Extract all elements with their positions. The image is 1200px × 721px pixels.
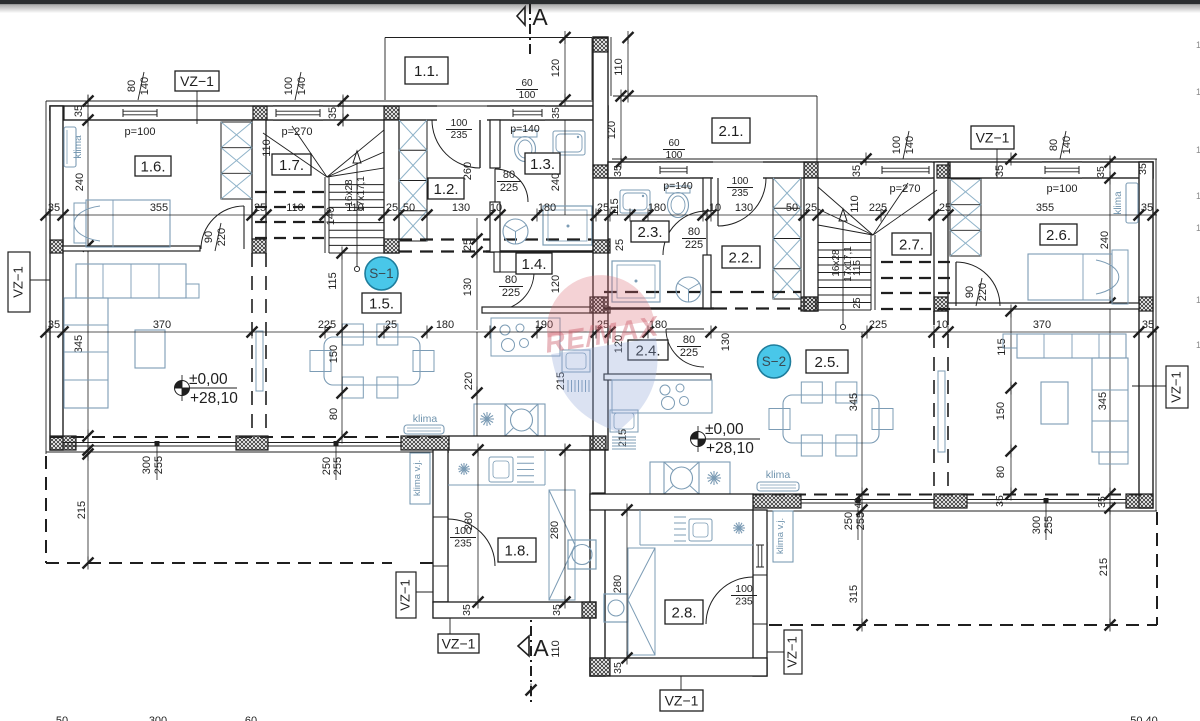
sofa unit2 bbox=[1017, 334, 1126, 358]
svg-text:180: 180 bbox=[436, 319, 454, 331]
stair1 right wall bbox=[384, 120, 399, 253]
svg-text:p=270: p=270 bbox=[282, 126, 313, 138]
coffee table unit2 bbox=[1041, 382, 1068, 424]
door unit2 entry 100x235 bbox=[718, 178, 766, 226]
unit2 top wall outer bbox=[612, 158, 1157, 160]
hatch wall y296 x590 bbox=[590, 297, 604, 313]
dim 110 terrace bbox=[627, 37, 629, 96]
svg-text:80: 80 bbox=[683, 334, 695, 346]
hatch 1.8 sw bbox=[433, 602, 448, 618]
closet 2.6 bbox=[950, 179, 981, 256]
glazing dim marker b bbox=[335, 446, 337, 480]
stair2 arrow bbox=[842, 221, 844, 325]
svg-text:35: 35 bbox=[851, 165, 863, 177]
svg-text:40: 40 bbox=[853, 498, 864, 509]
svg-text:90: 90 bbox=[964, 286, 976, 298]
hall 2.7 dashed treads bbox=[881, 261, 950, 263]
unit1 terrace dashed bottom bbox=[46, 562, 392, 564]
svg-text:1.8.: 1.8. bbox=[504, 542, 529, 559]
svg-text:80: 80 bbox=[503, 169, 515, 181]
wall 1.8 north bbox=[449, 436, 590, 450]
stair2 treads bbox=[818, 242, 871, 244]
svg-text:1.4.: 1.4. bbox=[521, 256, 546, 273]
closet hall unit1 bbox=[399, 120, 427, 241]
window 2.6 80x140 bbox=[1042, 162, 1082, 178]
wall x252 dashes bbox=[251, 253, 253, 436]
wall 2.8 east bbox=[753, 510, 767, 676]
svg-text:25: 25 bbox=[462, 239, 474, 251]
klima vj box unit1 bbox=[410, 453, 430, 504]
svg-text:p=140: p=140 bbox=[510, 123, 540, 135]
svg-text:VZ−1: VZ−1 bbox=[665, 693, 699, 709]
svg-text:10: 10 bbox=[490, 202, 502, 214]
svg-text:60: 60 bbox=[245, 715, 257, 721]
door unit1 entry 100x235 bbox=[432, 120, 480, 168]
window 2.8 east bbox=[753, 542, 767, 570]
svg-text:1.5.: 1.5. bbox=[369, 295, 394, 312]
dim 220 x477 bbox=[476, 332, 478, 436]
svg-text:15: 15 bbox=[1196, 295, 1200, 305]
svg-text:225: 225 bbox=[318, 319, 336, 331]
svg-text:220: 220 bbox=[463, 372, 475, 390]
unit2 south dashed bbox=[604, 494, 1152, 496]
unit2 terrace dashed right bbox=[1156, 512, 1158, 625]
svg-text:50: 50 bbox=[403, 202, 415, 214]
svg-text:280: 280 bbox=[463, 512, 475, 530]
svg-text:110: 110 bbox=[346, 202, 364, 214]
unit2 klima pier bbox=[753, 494, 801, 508]
kitchen 2.8 bbox=[640, 544, 753, 546]
unit1 south glazing a bbox=[63, 442, 236, 444]
S-1 circle bbox=[365, 257, 398, 290]
stair2 stringer bbox=[870, 235, 872, 310]
hatch left wall y240 bbox=[50, 240, 63, 253]
dim 240 x565 bbox=[564, 120, 566, 215]
unit2 glazing b bbox=[967, 499, 1126, 501]
hatch 1.8 se bbox=[582, 602, 596, 618]
room label 2.5 bbox=[806, 350, 848, 373]
svg-text:VZ−1: VZ−1 bbox=[784, 636, 799, 667]
svg-text:130: 130 bbox=[735, 202, 753, 214]
svg-text:180: 180 bbox=[538, 202, 556, 214]
svg-text:klima: klima bbox=[1113, 191, 1124, 215]
stair1 stringer bbox=[324, 177, 326, 253]
svg-text:345: 345 bbox=[848, 393, 860, 411]
glazing marker u2a bbox=[857, 503, 859, 540]
dim 280 door1.8 bbox=[477, 450, 479, 602]
sink 2.3 bbox=[620, 190, 650, 213]
svg-text:35: 35 bbox=[48, 319, 60, 331]
room label 1.4 bbox=[516, 253, 552, 274]
S-2 circle bbox=[758, 345, 791, 378]
glazing dim marker a bbox=[156, 446, 158, 480]
level mark unit2 bbox=[691, 432, 706, 447]
svg-text:250: 250 bbox=[843, 512, 855, 530]
svg-text:225: 225 bbox=[869, 202, 887, 214]
dim 215 left bbox=[87, 454, 89, 563]
pantry triangles 1.8 bbox=[549, 490, 575, 600]
svg-text:235: 235 bbox=[735, 596, 753, 608]
level mark unit1 bbox=[175, 381, 190, 396]
room label 1.3 bbox=[525, 153, 560, 174]
svg-text:130: 130 bbox=[452, 202, 470, 214]
top bar bbox=[0, 0, 1200, 4]
pantry triangles 2.8 bbox=[628, 548, 655, 655]
wall 1.6/living bbox=[63, 246, 200, 251]
kitchen fridge 2.5 bbox=[612, 436, 636, 438]
svg-text:180: 180 bbox=[648, 202, 666, 214]
svg-text:15: 15 bbox=[1196, 340, 1200, 350]
svg-text:35: 35 bbox=[612, 165, 624, 177]
passage dashed row2 unit1 bbox=[399, 250, 486, 252]
washer 1.4 bbox=[503, 219, 528, 244]
hatch bottom-right corner bbox=[1126, 494, 1153, 508]
klima unit 1.6 bbox=[64, 127, 76, 167]
wall 2.8 north bbox=[590, 494, 753, 510]
svg-text:25: 25 bbox=[385, 319, 397, 331]
svg-text:±0,00: ±0,00 bbox=[705, 421, 744, 438]
window 1.6 80x140 bbox=[120, 106, 160, 120]
kitchen island unit2 bbox=[650, 462, 730, 494]
svg-text:50: 50 bbox=[786, 202, 798, 214]
svg-text:300: 300 bbox=[1031, 516, 1043, 534]
svg-text:100: 100 bbox=[732, 176, 749, 187]
bed room 1.6 bbox=[86, 200, 170, 247]
svg-text:35: 35 bbox=[994, 165, 1006, 177]
room label 1.5 bbox=[362, 293, 401, 313]
unit1 left wall outer line bbox=[45, 101, 47, 454]
wall 2.3 south solid bbox=[604, 307, 714, 309]
svg-text:klima v.j.: klima v.j. bbox=[775, 518, 786, 554]
svg-text:15: 15 bbox=[1196, 223, 1200, 233]
svg-text:2.2.: 2.2. bbox=[728, 249, 753, 266]
wall 2.8 south bbox=[590, 658, 767, 676]
svg-text:35: 35 bbox=[1142, 319, 1154, 331]
dining table unit1 bbox=[324, 337, 420, 385]
svg-text:300: 300 bbox=[149, 715, 167, 721]
svg-text:80: 80 bbox=[126, 80, 138, 92]
svg-text:S−1: S−1 bbox=[369, 266, 393, 281]
VZ-1 bottom-center horiz bbox=[660, 690, 703, 711]
svg-text:225: 225 bbox=[869, 319, 887, 331]
room label 2.4 bbox=[628, 340, 668, 360]
svg-text:345: 345 bbox=[1097, 392, 1109, 410]
hall 1.7 dashed treads bbox=[255, 191, 325, 193]
svg-text:115: 115 bbox=[327, 272, 339, 290]
hatch u2 top x937 bbox=[937, 162, 950, 178]
svg-text:15: 15 bbox=[1196, 87, 1200, 97]
svg-text:25: 25 bbox=[939, 202, 951, 214]
window 1.2 60x100 bbox=[510, 106, 545, 120]
svg-text:1.6.: 1.6. bbox=[140, 158, 165, 175]
unit2 glazing a bbox=[801, 499, 934, 501]
svg-text:100: 100 bbox=[891, 136, 903, 154]
svg-text:15: 15 bbox=[1196, 145, 1200, 155]
svg-text:80: 80 bbox=[995, 466, 1007, 478]
svg-text:S−2: S−2 bbox=[762, 354, 786, 369]
svg-text:35: 35 bbox=[1137, 163, 1149, 175]
svg-text:110: 110 bbox=[613, 58, 625, 76]
room label 2.6 bbox=[1040, 224, 1077, 245]
dim chain y332 bbox=[46, 331, 1157, 333]
svg-text:115: 115 bbox=[852, 260, 863, 276]
svg-text:100: 100 bbox=[735, 583, 753, 595]
unit1 south pier bbox=[236, 436, 268, 450]
hatch u2 top right bbox=[1140, 162, 1153, 178]
svg-text:100: 100 bbox=[451, 118, 468, 129]
svg-text:345: 345 bbox=[73, 335, 85, 353]
stair2 fan bbox=[873, 190, 937, 235]
unit2 terrace dashed bottom bbox=[769, 624, 1157, 626]
tv panel unit2 bbox=[938, 371, 945, 452]
svg-text:150: 150 bbox=[995, 402, 1007, 420]
svg-text:215: 215 bbox=[1098, 558, 1110, 576]
unit1 terrace dashed left bbox=[45, 456, 47, 563]
unit1 left wall band bbox=[50, 106, 63, 450]
svg-text:25: 25 bbox=[254, 202, 266, 214]
hatch center y165 bbox=[593, 165, 608, 178]
svg-text:2.3.: 2.3. bbox=[637, 224, 662, 241]
hatch 2.8 sw bbox=[590, 658, 610, 676]
svg-text:25: 25 bbox=[805, 202, 817, 214]
svg-text:2.8.: 2.8. bbox=[671, 604, 696, 621]
hatch bottom-left corner bbox=[50, 436, 76, 450]
washer 2.3 bbox=[676, 277, 701, 302]
svg-text:60: 60 bbox=[668, 138, 680, 149]
window 2.2 60x100 bbox=[657, 162, 690, 178]
wall 2.3 east bbox=[703, 178, 711, 211]
room label 1.6 bbox=[135, 156, 171, 176]
svg-text:355: 355 bbox=[150, 202, 168, 214]
room label 2.8 bbox=[665, 600, 703, 624]
kitchen island unit1 bbox=[474, 404, 545, 436]
left dim line bbox=[87, 95, 89, 130]
svg-text:25: 25 bbox=[386, 202, 398, 214]
toilet 2.3 bbox=[666, 186, 690, 218]
svg-text:16x28: 16x28 bbox=[831, 249, 842, 277]
svg-text:255: 255 bbox=[153, 456, 165, 474]
unit1 top wall band bbox=[50, 106, 608, 120]
dim chain y215 bbox=[46, 214, 1157, 216]
svg-text:140: 140 bbox=[325, 207, 337, 225]
sofa unit1 bbox=[76, 264, 186, 298]
unit1 south glazing b bbox=[268, 442, 401, 444]
svg-text:110: 110 bbox=[550, 640, 562, 658]
svg-text:35: 35 bbox=[550, 107, 562, 119]
VZ-1 bottom-right vertical bbox=[784, 630, 802, 674]
svg-text:VZ−1: VZ−1 bbox=[180, 73, 214, 89]
washer sq 1.8 bbox=[568, 540, 596, 569]
window 2.7 100x140 bbox=[879, 162, 932, 178]
room label 2.3 bbox=[631, 221, 669, 242]
svg-text:10: 10 bbox=[709, 202, 721, 214]
svg-text:p=270: p=270 bbox=[890, 183, 921, 195]
kitchen counter 1.5 top bbox=[491, 318, 560, 356]
hatch center y297 bbox=[593, 297, 608, 313]
kitchen sink 1.5 bbox=[562, 350, 590, 372]
door 2.6 90x220 bbox=[956, 262, 1000, 306]
svg-text:80: 80 bbox=[688, 226, 700, 238]
svg-text:klima: klima bbox=[73, 135, 84, 159]
dim 120 center top bbox=[620, 96, 622, 162]
room label 1.7 bbox=[272, 154, 311, 175]
svg-text:+28,10: +28,10 bbox=[706, 440, 754, 457]
dim 280 unit1 bbox=[564, 450, 566, 602]
svg-text:120: 120 bbox=[550, 59, 562, 77]
hatch top-left corner bbox=[50, 106, 64, 120]
VZ-1 bottom-left horiz bbox=[438, 634, 479, 653]
svg-text:225: 225 bbox=[685, 239, 703, 251]
unit1 south dashed line bbox=[50, 436, 608, 438]
room label 2.7 bbox=[892, 233, 931, 255]
svg-text:35: 35 bbox=[461, 604, 473, 616]
kitchen 1.8 bbox=[448, 484, 545, 486]
unit1 top wall outer line bbox=[46, 100, 608, 102]
svg-text:280: 280 bbox=[549, 521, 561, 539]
coffee table unit1 bbox=[135, 330, 165, 368]
svg-text:1.2.: 1.2. bbox=[433, 181, 458, 198]
svg-text:±0,00: ±0,00 bbox=[189, 371, 228, 388]
svg-text:35: 35 bbox=[1141, 202, 1153, 214]
svg-text:VZ−1: VZ−1 bbox=[397, 579, 412, 610]
svg-text:240: 240 bbox=[550, 173, 562, 191]
shower 2.3 bbox=[612, 261, 660, 302]
svg-text:50: 50 bbox=[56, 715, 68, 721]
svg-text:2.5.: 2.5. bbox=[814, 354, 839, 371]
wall x252 hall bbox=[252, 120, 266, 239]
hatch center y493 bbox=[592, 493, 605, 509]
wall 1.4 west bbox=[494, 252, 500, 272]
svg-text:120: 120 bbox=[550, 275, 562, 293]
wall 2.6 west bbox=[934, 162, 948, 311]
svg-text:255: 255 bbox=[332, 457, 344, 475]
ticks 25 x477 bbox=[472, 234, 483, 245]
dim 315 u2 bbox=[861, 332, 863, 625]
svg-text:+28,10: +28,10 bbox=[190, 390, 238, 407]
svg-text:235: 235 bbox=[732, 188, 749, 199]
klima vj box unit2 bbox=[773, 511, 793, 562]
shower 1.4 bbox=[543, 206, 592, 245]
glazing marker u2b bbox=[1045, 503, 1047, 540]
unit1 south outer line bbox=[46, 451, 449, 453]
hatch center y240 bbox=[593, 240, 608, 253]
svg-text:100: 100 bbox=[283, 77, 295, 95]
VZ-1 bottom-left vertical bbox=[396, 572, 416, 618]
terrace 1.1 outline bbox=[385, 37, 592, 39]
hatch center bottom bbox=[582, 436, 606, 450]
svg-text:110: 110 bbox=[286, 202, 304, 214]
stair1 arrow bbox=[356, 163, 358, 267]
door 2.8 100x235 bbox=[754, 575, 766, 624]
kitchen sink 2.5 bbox=[610, 410, 638, 432]
svg-text:35: 35 bbox=[1095, 166, 1107, 178]
wall 2.6/living bbox=[948, 303, 1139, 309]
door 1.8 100x235 bbox=[434, 517, 447, 566]
svg-text:80: 80 bbox=[328, 408, 340, 420]
hatch right wall y297 bbox=[1139, 297, 1153, 311]
unit1 entry door opening bbox=[437, 104, 487, 121]
passage dashed row1 unit1 bbox=[399, 238, 596, 240]
svg-text:1.7.: 1.7. bbox=[279, 157, 304, 174]
svg-text:35: 35 bbox=[1096, 496, 1108, 508]
svg-text:240: 240 bbox=[1099, 231, 1111, 249]
VZ-1 label right bbox=[1166, 366, 1188, 408]
watermark balloon bbox=[539, 267, 670, 440]
dim 35 top right of 1.2 bbox=[342, 96, 344, 126]
tv panel unit1 bbox=[256, 331, 263, 391]
svg-text:225: 225 bbox=[502, 287, 520, 299]
hatch center y37 bbox=[593, 38, 608, 52]
svg-text:255: 255 bbox=[1043, 516, 1055, 534]
dim line x1011 bbox=[1010, 311, 1012, 494]
svg-text:1.1.: 1.1. bbox=[414, 63, 439, 80]
svg-text:25: 25 bbox=[614, 239, 626, 251]
door 1.4 80x225 bbox=[496, 272, 534, 310]
dim 280 u2 bbox=[626, 510, 628, 658]
svg-text:50.40: 50.40 bbox=[1130, 715, 1158, 721]
svg-text:1.3.: 1.3. bbox=[530, 156, 555, 173]
stair1 fan bbox=[263, 133, 327, 177]
svg-text:370: 370 bbox=[153, 319, 171, 331]
room label 2.2 bbox=[722, 246, 760, 268]
unit2 south outer bbox=[753, 510, 1157, 512]
hatch top wall x384 bbox=[384, 106, 399, 120]
VZ-1 label left bbox=[8, 252, 30, 312]
svg-text:35: 35 bbox=[994, 495, 1006, 507]
svg-text:235: 235 bbox=[451, 130, 468, 141]
right dim line bbox=[1109, 159, 1111, 625]
stair1 treads bbox=[329, 184, 384, 186]
window 1.7 100x140 bbox=[273, 106, 323, 120]
svg-text:p=100: p=100 bbox=[125, 126, 156, 138]
door 2.4 80x225 bbox=[666, 329, 704, 367]
VZ-1 label top-right bbox=[971, 126, 1014, 149]
svg-text:225: 225 bbox=[500, 182, 518, 194]
svg-text:klima: klima bbox=[766, 469, 791, 481]
kitchen fridge 1.5 bbox=[567, 380, 569, 392]
hatch pier door 1.6 bbox=[252, 239, 266, 253]
svg-text:110: 110 bbox=[261, 139, 273, 157]
unit2 south pier bbox=[934, 494, 967, 508]
hatch 2.8 se bbox=[753, 658, 767, 676]
svg-text:80: 80 bbox=[505, 274, 517, 286]
unit2 right wall outer bbox=[1155, 159, 1157, 511]
closet hall unit2 bbox=[773, 178, 801, 299]
svg-text:VZ−1: VZ−1 bbox=[1168, 371, 1183, 402]
svg-text:25: 25 bbox=[597, 202, 609, 214]
svg-text:A: A bbox=[533, 635, 549, 661]
svg-text:25: 25 bbox=[852, 297, 863, 309]
wall 2.6 dashes bbox=[933, 311, 935, 494]
svg-text:VZ−1: VZ−1 bbox=[10, 266, 25, 297]
VZ-1 label top-left bbox=[175, 71, 219, 91]
svg-text:p=100: p=100 bbox=[1047, 183, 1078, 195]
wall 1.3 south solid bbox=[486, 250, 596, 252]
svg-text:115: 115 bbox=[996, 338, 1008, 356]
klima 2.6 bbox=[1126, 183, 1138, 223]
svg-text:2.7.: 2.7. bbox=[899, 236, 924, 253]
svg-text:240: 240 bbox=[74, 173, 86, 191]
svg-text:VZ−1: VZ−1 bbox=[442, 636, 476, 652]
svg-text:90: 90 bbox=[203, 231, 215, 243]
dim 130 x477 bbox=[476, 218, 478, 330]
svg-text:klima v.j.: klima v.j. bbox=[412, 460, 423, 496]
svg-text:15: 15 bbox=[1196, 40, 1200, 50]
dim line x342 bbox=[341, 253, 343, 437]
bed 2.6 bbox=[1028, 254, 1112, 300]
wall 1.3 west bbox=[490, 120, 500, 168]
svg-text:VZ−1: VZ−1 bbox=[976, 130, 1010, 146]
